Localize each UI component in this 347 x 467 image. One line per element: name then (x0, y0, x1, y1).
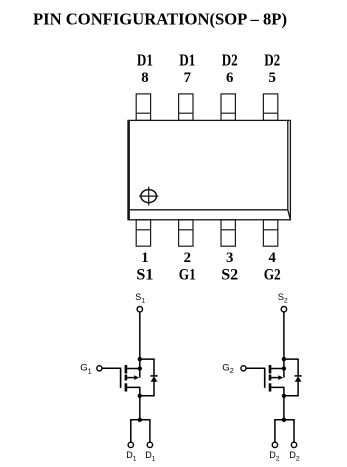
terminal S1 (137, 307, 142, 312)
svg-text:G1: G1 (179, 266, 196, 284)
terminal G1 (97, 366, 102, 371)
node C2 junction dot (282, 394, 286, 398)
wire to drain split (283, 396, 285, 420)
svg-text:S1: S1 (136, 266, 153, 284)
drain tap wire (126, 368, 140, 370)
wire S1 to node A (139, 312, 141, 369)
pin 3 lead (221, 220, 235, 246)
node A2 junction dot (282, 357, 286, 361)
terminal D2 left (272, 442, 277, 447)
source tap wire (270, 387, 284, 395)
pin 1 lead (136, 220, 150, 246)
gate plate Q2 (264, 368, 266, 388)
channel segments Q1 (125, 365, 128, 392)
svg-text:D2: D2 (264, 51, 280, 70)
drain split junction dot (138, 418, 142, 422)
bulk tap wire with arrow (283, 369, 285, 378)
package body U1 SOP-8 (128, 120, 290, 219)
svg-text:1: 1 (141, 250, 148, 266)
node B junction dot (138, 366, 142, 370)
pin 8 lead (136, 94, 150, 121)
svg-text:D1: D1 (179, 51, 195, 70)
bulk tap wire with arrow (139, 369, 141, 378)
terminal D2 right (291, 442, 296, 447)
diode cathode bar (150, 375, 157, 377)
pin 5 lead (263, 94, 277, 121)
svg-text:S2: S2 (221, 266, 238, 284)
wire to drain split (139, 396, 141, 420)
svg-text:G2: G2 (264, 266, 281, 284)
svg-text:5: 5 (268, 70, 275, 86)
package left edge (thick) (127, 120, 130, 219)
svg-text:7: 7 (184, 70, 192, 86)
wire S2 to node A2 (283, 312, 285, 369)
gate plate Q1 (120, 368, 122, 388)
pin1 indicator circle (139, 187, 158, 206)
pin 2 lead (179, 220, 193, 246)
body diode D Q2 branch wire (284, 359, 298, 396)
svg-text:6: 6 (226, 70, 233, 86)
terminal G2 (241, 366, 246, 371)
node A junction dot (138, 357, 142, 361)
drain tap wire (270, 368, 284, 370)
diode cathode bar (295, 375, 302, 377)
svg-text:8: 8 (141, 70, 148, 86)
svg-text:2: 2 (184, 250, 191, 266)
node C junction dot (138, 394, 142, 398)
terminal D1 right (147, 442, 152, 447)
pin 7 lead (179, 94, 193, 121)
pin 4 lead (263, 220, 277, 246)
node B2 junction dot (282, 366, 286, 370)
svg-text:D1: D1 (137, 51, 153, 70)
wire gate (102, 367, 121, 369)
channel segments Q2 (269, 365, 272, 392)
svg-text:D2: D2 (222, 51, 238, 70)
svg-text:PIN CONFIGURATION(SOP – 8P): PIN CONFIGURATION(SOP – 8P) (33, 9, 287, 28)
terminal D1 left (128, 442, 133, 447)
diode triangle (295, 376, 302, 382)
svg-text:4: 4 (268, 250, 276, 266)
drain split wires (275, 420, 294, 442)
drain split junction dot (282, 418, 286, 422)
body diode D Q1 branch wire (140, 359, 154, 396)
pin 6 lead (221, 94, 235, 121)
drain split wires (131, 420, 150, 442)
wire gate (246, 367, 265, 369)
diode triangle (151, 376, 158, 382)
source tap wire (126, 387, 140, 395)
svg-text:3: 3 (226, 250, 233, 266)
terminal S2 (281, 307, 286, 312)
